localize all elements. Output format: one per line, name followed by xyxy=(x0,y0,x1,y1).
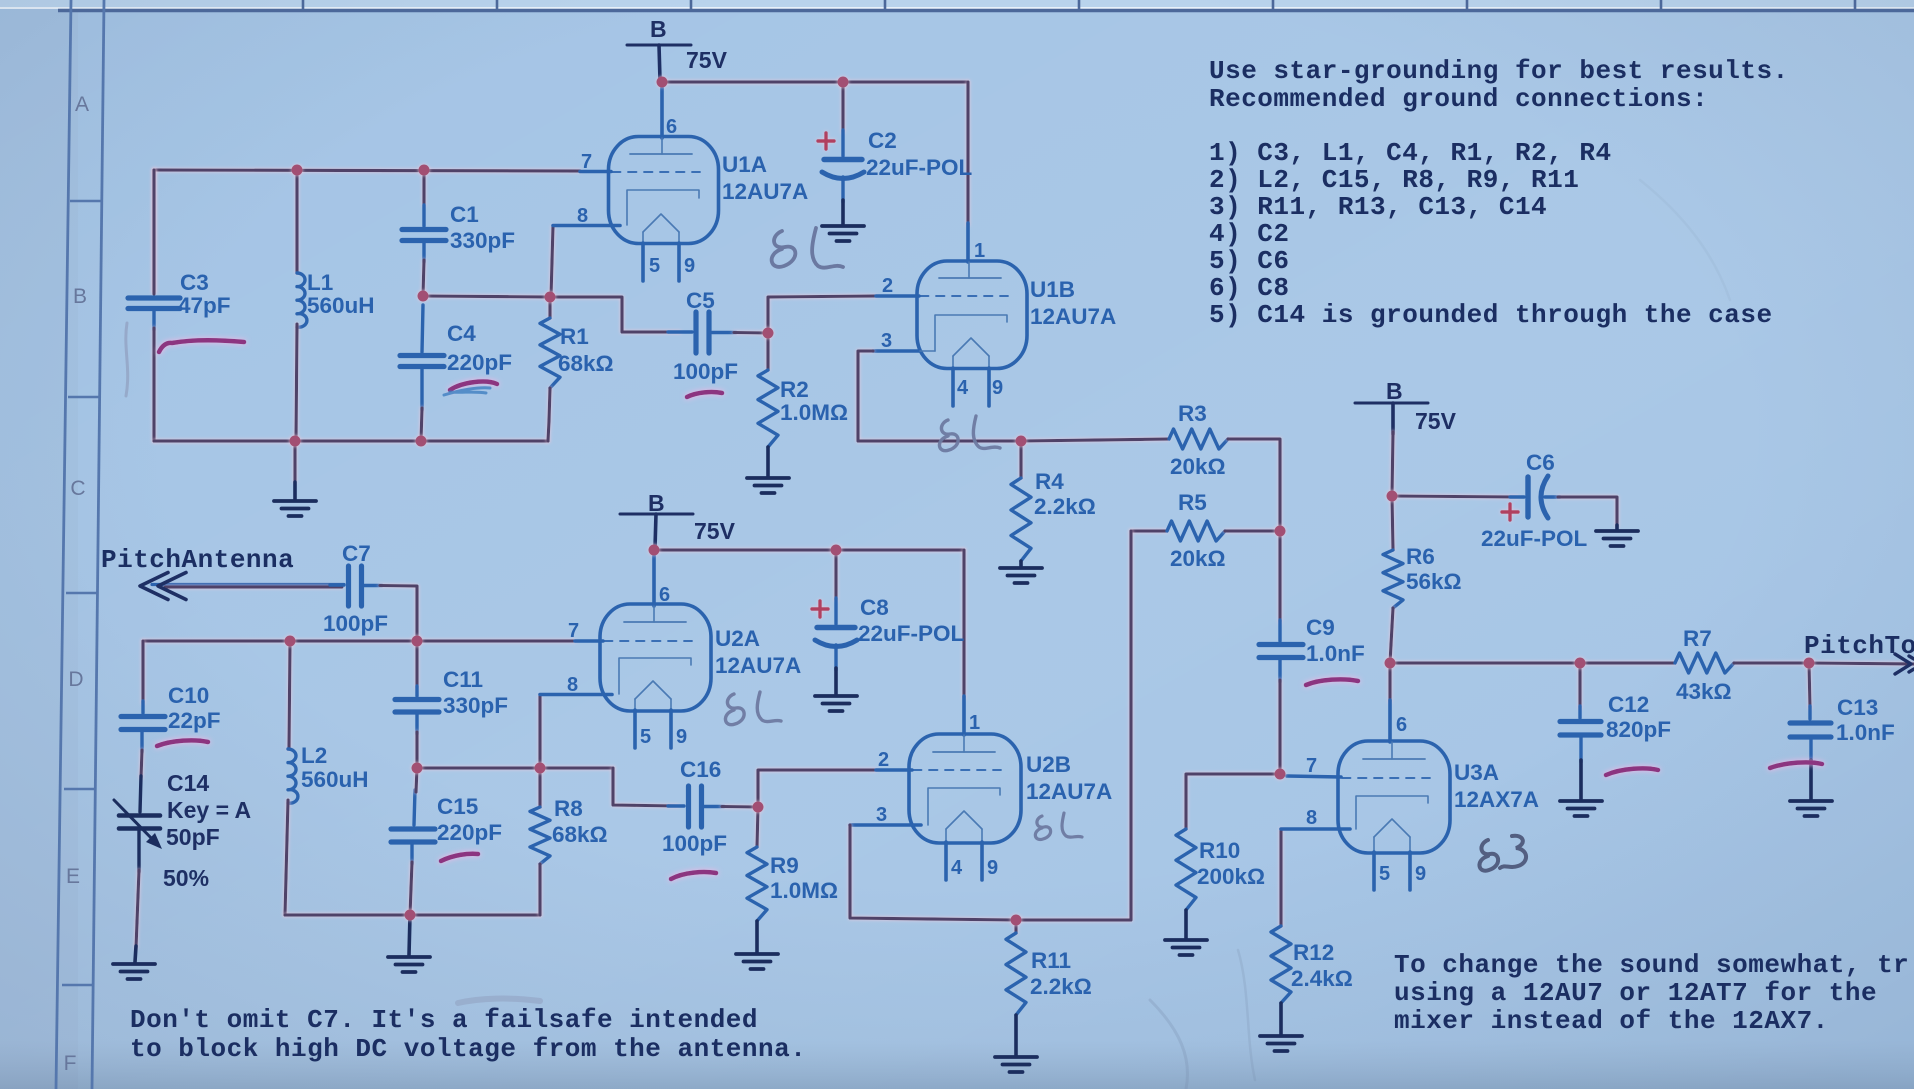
capacitor C1 xyxy=(422,170,425,205)
svg-text:3: 3 xyxy=(881,330,892,352)
svg-text:R3: R3 xyxy=(1178,401,1207,426)
capacitor C15 xyxy=(391,790,435,864)
svg-text:220pF: 220pF xyxy=(437,820,502,845)
ground right of C6 xyxy=(1596,531,1638,546)
svg-text:A: A xyxy=(75,93,89,116)
svg-text:20kΩ: 20kΩ xyxy=(1170,546,1226,571)
svg-text:R5: R5 xyxy=(1178,490,1207,515)
svg-text:9: 9 xyxy=(992,377,1003,399)
svg-text:3) R11, R13, C13, C14: 3) R11, R13, C13, C14 xyxy=(1209,192,1547,222)
svg-text:9: 9 xyxy=(676,726,687,748)
wire to PitchTo output xyxy=(1809,663,1914,664)
svg-text:Don't omit C7. It's a failsafe: Don't omit C7. It's a failsafe intended xyxy=(130,1005,758,1035)
svg-text:2: 2 xyxy=(882,275,893,297)
svg-text:820pF: 820pF xyxy=(1606,717,1671,742)
svg-text:R2: R2 xyxy=(780,377,809,402)
svg-text:1: 1 xyxy=(974,240,985,262)
svg-text:4: 4 xyxy=(951,857,963,879)
svg-text:9: 9 xyxy=(684,255,695,277)
wire left column C3 top xyxy=(152,170,155,292)
svg-text:B: B xyxy=(1386,378,1403,404)
svg-text:75V: 75V xyxy=(686,47,728,73)
svg-text:12AU7A: 12AU7A xyxy=(1030,304,1116,329)
svg-text:R11: R11 xyxy=(1031,948,1071,973)
resistor R7 xyxy=(1675,653,1734,673)
svg-text:1.0nF: 1.0nF xyxy=(1836,720,1895,745)
wire B2 rail to C8 and U2B pin1 xyxy=(654,548,964,551)
svg-text:22uF-POL: 22uF-POL xyxy=(858,621,965,646)
tube U1B xyxy=(873,223,1027,406)
pencil 83 near U3A xyxy=(1479,836,1526,871)
capacitor C12 xyxy=(1578,663,1581,708)
variable capacitor C14 xyxy=(114,776,162,872)
svg-text:C7: C7 xyxy=(342,541,371,566)
svg-text:43kΩ: 43kΩ xyxy=(1676,679,1732,704)
plus sign C8 xyxy=(812,601,828,617)
svg-text:C8: C8 xyxy=(860,595,889,620)
svg-text:200kΩ: 200kΩ xyxy=(1197,864,1265,889)
wire pin8 to R1 junction xyxy=(551,226,553,297)
svg-text:9: 9 xyxy=(1415,863,1426,885)
svg-text:B: B xyxy=(73,285,87,308)
antenna wire with arrow xyxy=(152,583,344,586)
resistor R3 xyxy=(1021,439,1169,441)
plus sign C6 xyxy=(1502,504,1518,520)
ground below L1 xyxy=(293,441,296,482)
svg-text:C2: C2 xyxy=(868,128,897,153)
svg-text:L2: L2 xyxy=(301,743,327,768)
svg-text:E: E xyxy=(66,865,80,888)
svg-text:U2B: U2B xyxy=(1026,752,1071,777)
svg-text:56kΩ: 56kΩ xyxy=(1406,569,1462,594)
wire output rail y663 xyxy=(1390,661,1675,664)
svg-text:12AX7A: 12AX7A xyxy=(1454,787,1539,812)
ground below C13 xyxy=(1790,801,1832,816)
svg-text:C12: C12 xyxy=(1608,692,1649,717)
wire C3 bottom to rail2 xyxy=(152,328,155,441)
wire B rail to C2 and U1B pin1 xyxy=(662,80,968,83)
svg-text:50pF: 50pF xyxy=(166,824,220,850)
pink marker under C9 1.0nF xyxy=(1306,679,1358,685)
svg-text:7: 7 xyxy=(568,620,579,642)
ground below R4 xyxy=(1000,568,1042,583)
svg-text:F: F xyxy=(64,1052,77,1075)
svg-text:D: D xyxy=(68,668,83,691)
svg-text:9: 9 xyxy=(987,857,998,879)
svg-text:R6: R6 xyxy=(1406,544,1435,569)
svg-text:6: 6 xyxy=(1396,714,1407,736)
svg-text:PitchToV: PitchToV xyxy=(1804,631,1914,661)
pink marker under C3 xyxy=(159,340,244,352)
resistor R2 xyxy=(766,333,769,370)
svg-text:6) C8: 6) C8 xyxy=(1209,273,1290,303)
svg-text:C: C xyxy=(70,477,85,500)
SECTION: right side xyxy=(1165,378,1914,1051)
capacitor C9 xyxy=(1278,531,1281,622)
svg-text:Key = A: Key = A xyxy=(167,797,251,823)
svg-text:1: 1 xyxy=(969,712,980,734)
capacitor C6 (22uF-POL, horizontal) xyxy=(1510,476,1560,518)
wire mid rail osc1 xyxy=(423,296,550,297)
svg-text:5: 5 xyxy=(1379,863,1390,885)
svg-text:C13: C13 xyxy=(1837,695,1878,720)
inductor L1 xyxy=(295,170,298,273)
wire U3A pin8 to R12 xyxy=(1279,829,1282,926)
pencil 82 near U2A xyxy=(725,692,781,725)
svg-text:2) L2, C15, R8, R9, R11: 2) L2, C15, R8, R9, R11 xyxy=(1209,165,1579,195)
svg-text:2.2kΩ: 2.2kΩ xyxy=(1030,974,1092,999)
wire C5 junction up to U1B pin2 xyxy=(768,296,876,333)
svg-text:5) C14 is grounded through the: 5) C14 is grounded through the case xyxy=(1209,300,1773,330)
svg-text:B: B xyxy=(650,16,667,42)
svg-text:L1: L1 xyxy=(307,270,333,295)
ground below C15 xyxy=(409,915,410,955)
ground below C14 xyxy=(113,964,155,979)
resistor R12 xyxy=(1271,926,1291,1003)
pink marker under C10 22pF xyxy=(157,740,208,746)
svg-text:R7: R7 xyxy=(1683,626,1712,651)
svg-text:C1: C1 xyxy=(450,202,479,227)
svg-text:B: B xyxy=(648,490,665,516)
svg-text:PitchAntenna: PitchAntenna xyxy=(101,545,294,575)
wire mid rail to C5 xyxy=(550,297,680,332)
svg-text:C16: C16 xyxy=(680,757,721,782)
pencil 82 near U2B xyxy=(1035,813,1082,840)
svg-text:330pF: 330pF xyxy=(443,693,508,718)
pink marker under C15 220pF xyxy=(441,854,478,861)
svg-text:To change the sound somewhat,: To change the sound somewhat, tr xyxy=(1394,950,1909,980)
svg-text:2: 2 xyxy=(878,749,889,771)
svg-text:6: 6 xyxy=(659,584,670,606)
svg-text:Use star-grounding for best re: Use star-grounding for best results. xyxy=(1209,56,1789,86)
ground below C12 xyxy=(1560,801,1602,816)
B supply 2 xyxy=(620,514,693,548)
ground below R9 xyxy=(736,954,778,969)
capacitor C4 xyxy=(400,305,444,410)
svg-text:2.2kΩ: 2.2kΩ xyxy=(1034,494,1096,519)
svg-text:1) C3, L1, C4, R1, R2, R4: 1) C3, L1, C4, R1, R2, R4 xyxy=(1209,138,1612,168)
svg-text:330pF: 330pF xyxy=(450,228,515,253)
resistor R9 xyxy=(757,807,758,847)
ground below R12 xyxy=(1260,1036,1302,1051)
border frame: left ruler strip xyxy=(56,0,104,1089)
capacitor C7 xyxy=(330,566,382,606)
pencil 82 near U1A xyxy=(772,228,843,268)
junction dots right xyxy=(1275,491,1815,780)
svg-text:100pF: 100pF xyxy=(673,359,738,384)
svg-text:68kΩ: 68kΩ xyxy=(552,822,608,847)
svg-text:C4: C4 xyxy=(447,321,476,346)
svg-text:U1B: U1B xyxy=(1030,277,1075,302)
wire bottom rail osc1 xyxy=(154,439,548,442)
capacitor C16 xyxy=(668,786,724,827)
junction dots xyxy=(290,77,1286,537)
wire B3 junction to C6 xyxy=(1392,496,1518,497)
pencil smudge near bottom text xyxy=(458,999,540,1003)
svg-text:12AU7A: 12AU7A xyxy=(715,653,801,678)
ground below R2 xyxy=(747,478,789,493)
svg-text:75V: 75V xyxy=(694,518,736,544)
svg-text:22pF: 22pF xyxy=(168,708,221,733)
wire pin1 riser U2B xyxy=(962,550,965,698)
svg-text:8: 8 xyxy=(1306,807,1317,829)
svg-text:1.0MΩ: 1.0MΩ xyxy=(770,878,838,903)
svg-text:U1A: U1A xyxy=(722,152,767,177)
inductor L2 xyxy=(289,641,290,749)
ground below C8 xyxy=(815,696,857,711)
svg-text:220pF: 220pF xyxy=(447,350,512,375)
svg-text:3: 3 xyxy=(876,804,887,826)
svg-text:6: 6 xyxy=(666,116,677,138)
pink marker under C12 820pF xyxy=(1606,768,1658,775)
output arrow chevrons xyxy=(1895,654,1914,674)
svg-text:50%: 50% xyxy=(163,865,209,891)
wire top rail osc1 xyxy=(154,170,580,171)
svg-text:1.0nF: 1.0nF xyxy=(1306,641,1365,666)
svg-text:4: 4 xyxy=(957,377,969,399)
wire C9 junction to U3A pin7 and R10 xyxy=(1186,774,1280,829)
wire pin1 riser U1B xyxy=(966,82,969,225)
svg-text:Recommended ground connections: Recommended ground connections: xyxy=(1209,84,1708,114)
wire R5 feedback column xyxy=(1016,531,1131,920)
wire pin8 riser + R8 top xyxy=(538,696,541,768)
ground below C2 xyxy=(822,226,864,241)
plus sign C2 xyxy=(818,133,834,149)
svg-text:47pF: 47pF xyxy=(178,293,231,318)
capacitor C2 (22uF-POL) xyxy=(841,82,844,132)
faint crease bottom middle xyxy=(1150,1000,1188,1089)
svg-text:8: 8 xyxy=(577,205,588,227)
tube U3A xyxy=(1281,700,1450,890)
svg-text:using a 12AU7 or 12AT7 for the: using a 12AU7 or 12AT7 for the xyxy=(1394,978,1877,1008)
svg-text:R12: R12 xyxy=(1293,940,1334,965)
svg-text:20kΩ: 20kΩ xyxy=(1170,454,1226,479)
tube U1A xyxy=(553,82,719,281)
svg-text:22uF-POL: 22uF-POL xyxy=(866,155,973,180)
border frame: top column ticks xyxy=(303,0,1855,12)
pencil 82 near U1B xyxy=(939,416,1000,451)
svg-text:75V: 75V xyxy=(1415,408,1457,434)
SECTION: oscillator 2 xyxy=(113,490,1112,1072)
svg-text:C9: C9 xyxy=(1306,615,1335,640)
pencil scratch top left xyxy=(126,323,128,396)
junction dots osc2 xyxy=(285,545,1022,926)
ground below R11 xyxy=(995,1057,1037,1072)
border frame: top border line xyxy=(58,9,1914,13)
svg-text:R4: R4 xyxy=(1035,469,1064,494)
SECTION: oscillator 1 xyxy=(128,16,1365,920)
svg-text:R9: R9 xyxy=(770,853,799,878)
resistor R8 xyxy=(538,768,541,807)
resistor R10 xyxy=(1176,829,1196,910)
capacitor C3 xyxy=(128,170,180,330)
svg-text:C3: C3 xyxy=(180,270,209,295)
svg-text:U3A: U3A xyxy=(1454,760,1499,785)
svg-text:1.0MΩ: 1.0MΩ xyxy=(780,400,848,425)
B supply 1 xyxy=(627,45,691,80)
svg-text:C11: C11 xyxy=(443,667,483,692)
svg-text:R1: R1 xyxy=(560,324,589,349)
wire C16 junction up to U2B pin2 xyxy=(758,770,876,807)
svg-text:12AU7A: 12AU7A xyxy=(722,179,808,204)
svg-text:C6: C6 xyxy=(1526,450,1555,475)
svg-text:R8: R8 xyxy=(554,796,583,821)
svg-text:C14: C14 xyxy=(167,770,209,796)
svg-text:2.4kΩ: 2.4kΩ xyxy=(1291,966,1353,991)
svg-text:U2A: U2A xyxy=(715,626,760,651)
svg-text:5: 5 xyxy=(640,726,651,748)
resistor R1 xyxy=(548,297,551,318)
svg-text:mixer instead of the 12AX7.: mixer instead of the 12AX7. xyxy=(1394,1006,1829,1036)
wire mid rail to C16 xyxy=(613,768,678,806)
svg-text:100pF: 100pF xyxy=(323,611,388,636)
svg-text:68kΩ: 68kΩ xyxy=(558,351,614,376)
wire U3A pin6 drop xyxy=(1388,663,1391,702)
ground below R10 xyxy=(1165,940,1207,955)
SECTION: marks xyxy=(126,180,1822,1089)
resistor R6 xyxy=(1392,496,1393,550)
capacitor C10 xyxy=(121,701,165,752)
capacitor C5 xyxy=(668,312,736,353)
pink marker under C13 1.0nF xyxy=(1770,762,1822,768)
svg-text:R10: R10 xyxy=(1199,838,1240,863)
resistor R4 xyxy=(1019,441,1022,478)
resistor R5 xyxy=(1131,529,1167,532)
svg-text:12AU7A: 12AU7A xyxy=(1026,779,1112,804)
svg-text:22uF-POL: 22uF-POL xyxy=(1481,526,1588,551)
wire U1B pin3 to R4/R3 rail xyxy=(858,351,1021,441)
svg-text:C15: C15 xyxy=(437,794,478,819)
svg-text:C5: C5 xyxy=(686,288,715,313)
wire left column to C10 xyxy=(141,641,144,703)
wire mid rail osc2 xyxy=(417,766,613,769)
svg-text:5: 5 xyxy=(649,255,660,277)
svg-text:C10: C10 xyxy=(168,683,209,708)
svg-text:4) C2: 4) C2 xyxy=(1209,219,1290,249)
wire U2B pin3 loop to R11 junction xyxy=(850,825,1016,920)
capacitor C8 (22uF-POL) xyxy=(834,550,837,600)
svg-text:5) C6: 5) C6 xyxy=(1209,246,1290,276)
svg-text:8: 8 xyxy=(567,674,578,696)
svg-text:100pF: 100pF xyxy=(662,831,727,856)
svg-text:560uH: 560uH xyxy=(307,293,375,318)
capacitor C13 xyxy=(1809,663,1810,708)
tube U2B xyxy=(850,696,1021,880)
faint wrinkle right xyxy=(1640,180,1730,300)
svg-text:560uH: 560uH xyxy=(301,767,369,792)
svg-text:7: 7 xyxy=(581,151,592,173)
pink marker under C16 100pF xyxy=(671,872,716,879)
pink marker under C5 100pF xyxy=(687,392,722,397)
resistor R11 xyxy=(1014,920,1017,933)
pink+blue scribble under C4 xyxy=(450,382,497,390)
capacitor C11 xyxy=(415,641,418,688)
svg-text:to block high DC voltage from: to block high DC voltage from the antenn… xyxy=(130,1034,806,1064)
tube U2A xyxy=(540,550,711,748)
wire bottom rail osc2 xyxy=(285,913,540,916)
svg-text:7: 7 xyxy=(1306,755,1317,777)
wire pin7 rail osc2 xyxy=(143,639,575,642)
B supply 3 xyxy=(1355,403,1428,434)
